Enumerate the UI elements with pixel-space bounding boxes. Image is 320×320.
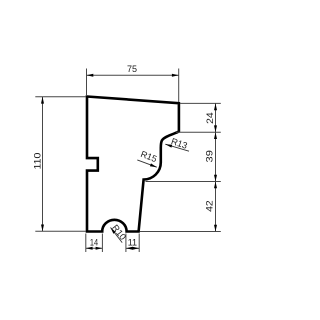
svg-text:42: 42 <box>204 200 214 212</box>
svg-text:11: 11 <box>128 237 137 247</box>
dimension 110 extension line top <box>35 96 86 98</box>
dimension 11 label <box>128 237 137 247</box>
dimension 110 label <box>33 153 43 170</box>
right extension line at profile bottom <box>140 231 221 233</box>
dimension 11 extension line left <box>125 234 127 253</box>
dimension 11 line <box>126 247 139 250</box>
dimension 110 line <box>41 97 44 232</box>
dimension 14 extension line right <box>101 234 103 253</box>
svg-text:110: 110 <box>33 153 43 170</box>
dimension 75 label <box>127 64 137 74</box>
dimension 39 line <box>214 132 217 181</box>
radius leader R13 <box>165 136 189 151</box>
dimension 42 label <box>204 200 214 212</box>
right extension line at top slab corner <box>180 102 221 104</box>
right extension line at fascia bottom <box>176 131 221 133</box>
svg-text:14: 14 <box>90 237 98 247</box>
dimension 24 line <box>214 103 217 132</box>
dimension 42 line <box>214 182 217 232</box>
radius leader R10 <box>110 223 128 243</box>
dimension 24 label <box>205 112 215 124</box>
dimension 75 line <box>87 74 179 77</box>
dimension 75 extension line right <box>178 69 180 103</box>
svg-text:24: 24 <box>205 112 215 124</box>
dimension 14 label <box>90 237 98 247</box>
dimension 110 extension line bottom <box>35 230 86 232</box>
right extension line at ogee step <box>146 181 221 183</box>
svg-text:R13: R13 <box>170 136 189 151</box>
svg-text:39: 39 <box>204 150 214 162</box>
dimension 14 line <box>86 247 103 250</box>
dimension 14 extension line left <box>85 234 87 253</box>
dimension 11 extension line right <box>138 234 140 253</box>
svg-text:75: 75 <box>127 64 137 74</box>
moulding profile outline <box>87 97 179 232</box>
radius leader R15 <box>137 149 158 167</box>
dimension 39 label <box>204 150 214 162</box>
dimension 75 extension line left <box>86 69 88 97</box>
